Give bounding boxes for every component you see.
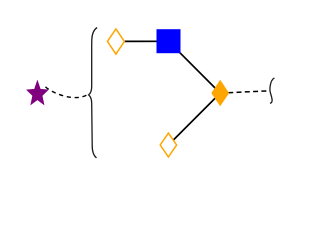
wire: filled diamond D2 to diamond D3 (diagonal) xyxy=(168,93,220,145)
wire: dashed link filled diamond D2 to right brace xyxy=(228,91,267,93)
node: purple star (floating monosaccharide) xyxy=(27,81,47,104)
node: open orange diamond D1 xyxy=(107,29,124,54)
right brace (small integral-like squiggle) xyxy=(270,78,274,104)
node: open orange diamond D3 xyxy=(160,133,176,157)
left curly brace xyxy=(89,28,98,158)
node: blue square U1 (GlcNAc) xyxy=(157,30,180,53)
wire: square U1 to diamond D1 (horizontal) xyxy=(116,40,169,42)
node: filled orange diamond D2 xyxy=(212,81,229,106)
wire: dashed link star to left brace xyxy=(46,87,90,98)
wire: square U1 to filled diamond D2 (diagonal) xyxy=(169,41,221,93)
